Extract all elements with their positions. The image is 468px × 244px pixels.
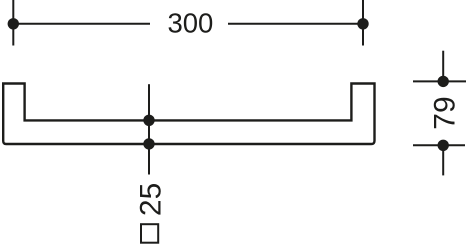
dimension line 79 lower segment xyxy=(442,140,444,175)
svg-text:25: 25 xyxy=(134,183,167,216)
square profile symbol xyxy=(141,224,158,243)
dimension dot left (300) xyxy=(8,18,19,29)
towel bar outline with end posts xyxy=(3,84,374,145)
dimension dot top (79) xyxy=(438,76,449,87)
dimension line 79 upper segment xyxy=(442,51,444,87)
leader line center (25 dim) xyxy=(148,84,150,174)
dimension line 300 left segment xyxy=(13,23,150,25)
tick line top (79 dim) xyxy=(413,80,466,82)
tick line bottom (79 dim) xyxy=(413,144,465,146)
extension line right (300 dim) xyxy=(362,0,364,46)
dimension line 300 right segment xyxy=(228,23,363,25)
leader dot bottom (bar bottom edge) xyxy=(143,138,154,149)
svg-text:79: 79 xyxy=(429,96,462,129)
dimension dot right (300) xyxy=(357,18,368,29)
extension line left (300 dim) xyxy=(12,0,14,46)
svg-text:300: 300 xyxy=(167,7,213,38)
dimension dot bottom (79) xyxy=(438,140,449,151)
leader dot top (bar top edge) xyxy=(143,115,154,126)
